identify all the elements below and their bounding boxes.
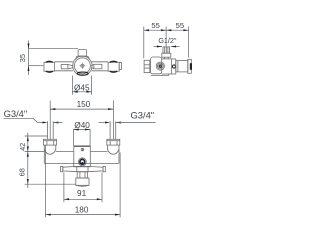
handle base bottom arc (76, 185, 89, 186)
cross handle hub left (76, 166, 78, 171)
91 arrow left (64, 198, 69, 200)
right nut facet 1 (109, 141, 111, 145)
180 arrow right (115, 214, 120, 216)
68 arrow up (27, 152, 29, 157)
port column right (167, 57, 169, 59)
Ø40 extension right (89, 129, 91, 146)
wall flange line 1 (144, 64, 150, 66)
cartridge outer circle (73, 56, 92, 75)
wall flange line 2 (144, 67, 150, 69)
thread hatch 2 (165, 47, 167, 53)
Ø40 arrow right (85, 129, 90, 131)
pipe right taper upper (91, 64, 94, 65)
dimension 35 arrow down (28, 44, 30, 49)
left nut facet 1 (46, 141, 48, 145)
Ø40 extension left (73, 129, 75, 146)
svg-text:180: 180 (75, 205, 89, 214)
side screw circle (172, 65, 175, 68)
180 extension right (119, 153, 121, 218)
svg-text:G3/4": G3/4" (130, 109, 154, 120)
91 dimension line (64, 198, 102, 200)
G3/4 right arrow right (105, 122, 110, 124)
right nut facet 2 (116, 141, 118, 145)
left nut facet 2 (53, 141, 55, 145)
svg-text:G1/2": G1/2" (158, 36, 177, 45)
knob ring (80, 159, 85, 164)
right inlet pipe right edge (115, 121, 117, 139)
68 arrow down (27, 179, 29, 184)
bracket bottom stub (168, 74, 170, 76)
cartridge cross h (80, 65, 86, 67)
svg-text:55: 55 (176, 21, 184, 30)
150 arrow left (50, 108, 55, 110)
thread hatch 3 (167, 47, 169, 53)
right inlet pipe left edge (109, 121, 111, 139)
pipe left bottom edge (54, 70, 73, 72)
mid body bottom edge (162, 73, 176, 75)
55 arrow far right (183, 29, 188, 31)
handle stem rib 1 (79, 172, 81, 178)
pipe right top edge (92, 61, 109, 63)
cartridge center hub (81, 64, 84, 67)
pipe left inner step (61, 65, 68, 69)
knob circle mid (157, 63, 163, 69)
svg-text:91: 91 (77, 189, 87, 198)
svg-text:68: 68 (17, 168, 26, 176)
right nut (107, 139, 120, 145)
tube top edge right (90, 151, 107, 153)
port column left (163, 57, 165, 59)
right union top arc (110, 60, 117, 63)
handle base (76, 178, 89, 185)
150 dimension line (50, 108, 113, 110)
port flange (162, 53, 171, 57)
thermostat body square (74, 146, 91, 167)
svg-text:42: 42 (18, 143, 27, 151)
left nut bevel (44, 140, 57, 142)
55 arrow mid left (166, 29, 171, 31)
tube bottom edge (44, 162, 119, 164)
pipe right taper lower (91, 68, 94, 69)
55 extension middle (165, 27, 167, 47)
knob circle outer (156, 62, 164, 70)
G1/2 dim tail left (154, 46, 163, 48)
Ø40 dimension line (74, 129, 91, 131)
cartridge cross v (81, 63, 83, 69)
91 extension left (63, 173, 65, 203)
thermostat body top thick (74, 146, 91, 148)
180 dimension line (46, 214, 121, 216)
handle stem (77, 172, 87, 178)
lever ellipse at circle bottom (77, 72, 88, 75)
svg-text:35: 35 (18, 54, 27, 62)
mid body vertical 2 (175, 59, 177, 74)
42 68 dimension vertical (27, 133, 29, 189)
pipe left top edge (54, 61, 73, 63)
Ø45 dimension line (73, 91, 92, 93)
right elbow dome (108, 149, 120, 154)
left elbow left side (43, 145, 45, 163)
cross handle end right (103, 166, 105, 171)
pipe left taper upper (68, 65, 74, 66)
wire extension line body axis left (29, 65, 44, 67)
G1/2 arrow left (171, 46, 176, 48)
91 arrow right (97, 198, 102, 200)
handle stem rib 2 (84, 172, 86, 178)
left elbow dome (44, 149, 56, 154)
G3/4 left leader diagonal (33, 118, 38, 122)
G3/4 left arrow right (42, 122, 47, 124)
42 arrow down (27, 146, 29, 151)
G3/4 left inner arrow (53, 122, 58, 124)
left inlet pipe right edge (52, 121, 54, 139)
left nut (44, 139, 57, 145)
left union top arc (46, 60, 53, 63)
knob housing (151, 57, 162, 74)
55 arrow far left (144, 29, 149, 31)
knob ring outer thin (78, 158, 86, 166)
Ø40 arrow left (74, 129, 79, 131)
pipe right bottom edge (92, 70, 109, 72)
right union body (108, 62, 119, 71)
55 arrow mid right (161, 29, 166, 31)
screw circle (81, 148, 84, 151)
cross handle bar (63, 166, 103, 171)
wire extension line top of cap (29, 48, 79, 50)
68 bottom extension (25, 183, 76, 185)
G1/2 arrow right (157, 46, 162, 48)
wall flange (144, 60, 150, 72)
55 55 dimension line (144, 29, 189, 31)
tube top edge left (56, 151, 74, 153)
G1/2 thread port (163, 47, 170, 53)
knob circle center dark (159, 65, 161, 67)
outlet end cap (188, 59, 192, 73)
cross handle end left (61, 166, 63, 171)
dimension 35 arrow up (28, 66, 30, 71)
svg-text:150: 150 (77, 100, 91, 109)
outlet cylinder (176, 61, 188, 72)
G3/4 left inner tail (53, 122, 62, 124)
right nut bevel (107, 140, 120, 142)
G3/4 left underline (4, 117, 34, 119)
right union bottom arc (110, 70, 117, 73)
left union bottom arc (46, 70, 53, 73)
G1/2 dim tail right (171, 46, 180, 48)
cartridge inner circle (74, 58, 90, 74)
left elbow right side (55, 145, 57, 150)
mid body top edge (162, 58, 176, 60)
outlet end slot (190, 64, 191, 70)
cap rect (78, 50, 86, 57)
Ø45 arrow left (73, 91, 78, 93)
Ø45 extension right (91, 76, 93, 95)
G3/4 right tail a (99, 122, 105, 124)
150 extension right (112, 101, 114, 140)
dimension 35 vertical line (28, 41, 30, 76)
right elbow left side (107, 145, 109, 150)
150 arrow right (108, 108, 113, 110)
svg-text:55: 55 (151, 21, 159, 30)
pipe right inner step (94, 64, 102, 69)
cross handle hub right (87, 166, 89, 171)
knob center mark (82, 162, 83, 163)
150 extension left (49, 101, 51, 140)
55 extension left (143, 27, 145, 59)
180 extension left (45, 146, 47, 218)
G3/4 left leader tail (38, 122, 43, 124)
left inlet pipe left edge (47, 121, 49, 139)
pipe left taper lower (68, 68, 74, 69)
55 extension right (188, 27, 190, 58)
knob circle inner (159, 65, 162, 68)
right elbow right side (118, 145, 120, 163)
42 bottom extension tube top (25, 151, 45, 153)
Ø45 arrow right (86, 91, 91, 93)
mid body vertical 1 (171, 59, 173, 74)
bracket bottom line (151, 75, 169, 77)
thread hatch 1 (164, 47, 166, 53)
42 arrow up (27, 136, 29, 141)
right end stub (119, 62, 121, 69)
Ø45 extension left (72, 76, 74, 95)
left union body (44, 62, 55, 71)
91 extension right (101, 173, 103, 203)
cap collar (76, 56, 89, 59)
svg-text:G3/4": G3/4" (4, 108, 28, 119)
screw slot (81, 149, 83, 151)
outlet step line (177, 61, 179, 72)
G3/4 right arrow left (116, 122, 121, 124)
42 top extension (25, 135, 48, 137)
svg-text:Ø40: Ø40 (74, 121, 90, 130)
180 arrow left (46, 214, 51, 216)
G3/4 right tail b (116, 122, 156, 124)
svg-text:Ø45: Ø45 (74, 83, 90, 92)
